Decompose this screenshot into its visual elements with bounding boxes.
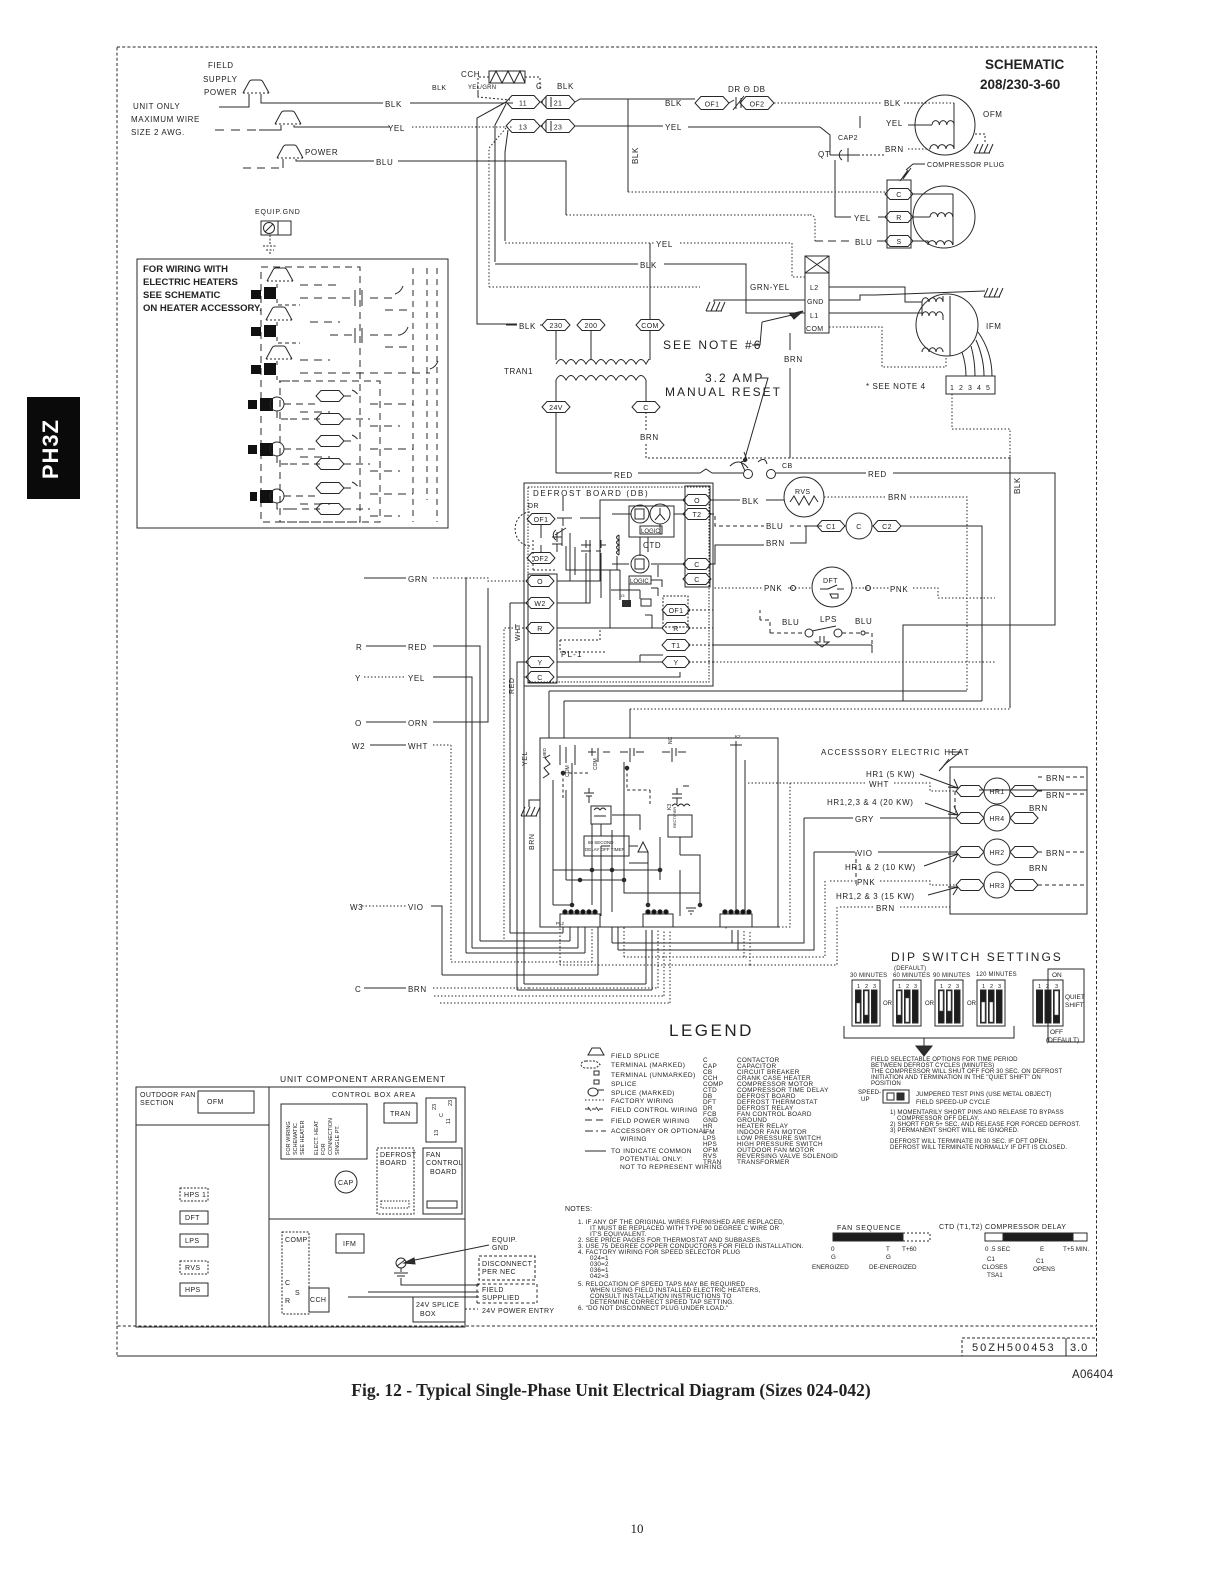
wire from cap down bbox=[834, 160, 836, 217]
svg-text:POSITION: POSITION bbox=[871, 1080, 901, 1087]
svg-text:DFT: DFT bbox=[823, 578, 838, 585]
HPS box bbox=[180, 1283, 208, 1296]
wire BRN from RVS bbox=[824, 496, 886, 498]
svg-text:S: S bbox=[896, 239, 901, 246]
contactor coil C1-C-C2 bbox=[817, 521, 845, 532]
terminal R bbox=[526, 623, 554, 634]
wire BRN dashed to connector bbox=[529, 930, 658, 988]
svg-text:R: R bbox=[896, 215, 901, 222]
rotated text box bbox=[281, 1104, 367, 1159]
svg-text:BOARD: BOARD bbox=[380, 1160, 407, 1167]
svg-text:G: G bbox=[886, 1254, 891, 1261]
svg-text:FIELD: FIELD bbox=[208, 61, 234, 70]
svg-text:RECTIFIER: RECTIFIER bbox=[672, 807, 677, 828]
svg-text:HR1,2,3 & 4 (20 KW): HR1,2,3 & 4 (20 KW) bbox=[827, 798, 914, 807]
DEFROST BOARD box bbox=[377, 1148, 414, 1214]
svg-text:DFT: DFT bbox=[185, 1215, 200, 1222]
curves from IFM to plug bbox=[962, 332, 992, 376]
svg-text:1: 1 bbox=[1038, 984, 1041, 990]
svg-text:R: R bbox=[356, 643, 362, 652]
terminal COM bbox=[636, 320, 664, 331]
svg-text:120 MINUTES: 120 MINUTES bbox=[976, 972, 1017, 978]
svg-text:WHT: WHT bbox=[515, 623, 522, 641]
svg-text:3.2 AMP: 3.2 AMP bbox=[705, 371, 764, 385]
svg-text:PNK: PNK bbox=[890, 585, 908, 594]
wires from T1/Y right bbox=[713, 645, 872, 653]
terminal C right1 bbox=[683, 559, 711, 570]
transistor 2 bbox=[631, 555, 649, 573]
svg-text:3.0: 3.0 bbox=[1070, 1342, 1088, 1354]
svg-text:ACCESSSORY ELECTRIC HEAT: ACCESSSORY ELECTRIC HEAT bbox=[821, 748, 970, 757]
svg-text:* SEE NOTE 4: * SEE NOTE 4 bbox=[866, 382, 926, 391]
terminal W2 bbox=[526, 598, 554, 609]
svg-text:UP: UP bbox=[861, 1096, 870, 1103]
svg-text:DEFROST WILL TERMINATE NORMALL: DEFROST WILL TERMINATE NORMALLY IF DFT I… bbox=[890, 1144, 1067, 1151]
DISCONNECT PER NEC box bbox=[479, 1256, 535, 1280]
splice sym bbox=[594, 1080, 599, 1084]
svg-text:200: 200 bbox=[585, 323, 598, 330]
board wire to O strip bbox=[533, 540, 557, 570]
svg-text:24V SPLICE: 24V SPLICE bbox=[416, 1302, 459, 1309]
svg-text:208/230-3-60: 208/230-3-60 bbox=[980, 77, 1060, 92]
svg-text:QT: QT bbox=[818, 150, 830, 159]
contact 11-21 bbox=[540, 96, 551, 108]
svg-text:CAP: CAP bbox=[338, 1180, 354, 1187]
wire yel dashed stub bbox=[215, 129, 259, 131]
svg-text:DEFROST: DEFROST bbox=[380, 1152, 417, 1159]
svg-text:Y: Y bbox=[673, 660, 678, 667]
cross runs joining left bundle bbox=[605, 926, 726, 928]
LPS box bbox=[180, 1234, 208, 1247]
svg-text:6. "DO NOT DISCONNECT PLUG UND: 6. "DO NOT DISCONNECT PLUG UNDER LOAD." bbox=[578, 1305, 729, 1312]
svg-text:BRN: BRN bbox=[1046, 791, 1065, 800]
svg-text:(DEFAULT): (DEFAULT) bbox=[1046, 1037, 1079, 1044]
svg-text:C1: C1 bbox=[987, 1256, 996, 1263]
GRN bbox=[364, 577, 406, 579]
vertical RED from R terminal bbox=[504, 628, 527, 941]
svg-text:23: 23 bbox=[432, 1104, 438, 1110]
svg-text:SUPPLIED: SUPPLIED bbox=[482, 1295, 520, 1302]
terminal Y right bbox=[662, 657, 690, 668]
FAN CONTROL BOARD box bbox=[423, 1148, 462, 1214]
LPS switch bbox=[770, 632, 804, 634]
wire BRN from cap2 to OFM bbox=[850, 154, 884, 156]
svg-text:OF1: OF1 bbox=[705, 102, 720, 109]
FCB lower wires bbox=[553, 870, 700, 905]
PH3Z black tab bbox=[27, 397, 80, 499]
svg-text:DE-ENERGIZED: DE-ENERGIZED bbox=[869, 1264, 917, 1271]
svg-text:ORN: ORN bbox=[408, 719, 428, 728]
HPS 1 box bbox=[180, 1188, 208, 1201]
terminal S bbox=[885, 236, 913, 247]
splice blobs 3 bbox=[251, 365, 261, 374]
svg-text:TRAN: TRAN bbox=[703, 1159, 722, 1166]
bracket + arrow bbox=[844, 1026, 1014, 1038]
svg-text:3) PERMANENT SHORT WILL BE IGN: 3) PERMANENT SHORT WILL BE IGNORED. bbox=[890, 1127, 1019, 1134]
svg-text:BLK: BLK bbox=[432, 85, 446, 92]
svg-text:BLK: BLK bbox=[519, 322, 536, 331]
arrow see note 6 bbox=[790, 311, 803, 319]
ground left of FCB bbox=[521, 807, 540, 816]
svg-text:1: 1 bbox=[950, 385, 954, 392]
svg-text:ELECTRIC HEATERS: ELECTRIC HEATERS bbox=[143, 277, 238, 288]
terminal block bbox=[805, 256, 829, 273]
compressor motor bbox=[913, 186, 975, 248]
field splice S1 bbox=[243, 80, 269, 93]
svg-text:OR: OR bbox=[967, 1001, 977, 1007]
heater terminal hex row3b bbox=[316, 504, 344, 515]
svg-text:MED: MED bbox=[542, 747, 547, 758]
divider vertical bbox=[268, 1087, 270, 1327]
splice arrows with blobs bbox=[251, 268, 300, 381]
svg-text:DEFROST BOARD (DB): DEFROST BOARD (DB) bbox=[533, 489, 649, 498]
svg-text:50ZH500453: 50ZH500453 bbox=[972, 1342, 1056, 1354]
board dashed runs bbox=[560, 628, 605, 652]
field power wiring sym bbox=[585, 1119, 606, 1121]
svg-text:2: 2 bbox=[959, 385, 963, 392]
svg-text:R: R bbox=[673, 626, 678, 633]
terminal OF1 lower right bbox=[663, 596, 688, 627]
svg-text:60 MINUTES: 60 MINUTES bbox=[893, 973, 930, 979]
svg-text:O: O bbox=[694, 498, 700, 505]
svg-text:SPEED-: SPEED- bbox=[858, 1089, 881, 1096]
dip block 3 bbox=[935, 980, 963, 1026]
svg-text:YEL: YEL bbox=[408, 674, 425, 683]
svg-text:NC: NC bbox=[668, 736, 674, 744]
svg-text:TERMINAL (UNMARKED): TERMINAL (UNMARKED) bbox=[611, 1072, 696, 1079]
terminal O bbox=[526, 576, 554, 587]
HR2 right wires bbox=[1038, 851, 1087, 853]
svg-text:YEL: YEL bbox=[886, 119, 903, 128]
svg-text:DELAY OFF TIMER: DELAY OFF TIMER bbox=[585, 847, 626, 852]
OFM box bbox=[198, 1091, 254, 1113]
svg-text:SHIFT: SHIFT bbox=[1065, 1002, 1084, 1009]
svg-text:BLK: BLK bbox=[631, 147, 640, 164]
part number box bbox=[962, 1338, 1097, 1356]
svg-text:RVS: RVS bbox=[795, 489, 810, 496]
wire RED right bbox=[712, 472, 866, 474]
wire BLK from O to RVS bbox=[710, 499, 740, 501]
svg-text:BOARD: BOARD bbox=[430, 1169, 457, 1176]
svg-text:YEL: YEL bbox=[854, 214, 871, 223]
terminal OF2 bbox=[527, 553, 555, 564]
svg-text:T+5 MIN.: T+5 MIN. bbox=[1063, 1246, 1089, 1253]
svg-text:CTD (T1,T2) COMPRESSOR DELAY: CTD (T1,T2) COMPRESSOR DELAY bbox=[939, 1224, 1066, 1231]
svg-text:C: C bbox=[694, 577, 699, 584]
small gnd inside bbox=[686, 908, 696, 914]
svg-text:EQUIP.: EQUIP. bbox=[492, 1237, 517, 1244]
FCB box bbox=[540, 738, 778, 927]
svg-text:BRN: BRN bbox=[766, 539, 785, 548]
svg-text:R: R bbox=[285, 1298, 290, 1305]
svg-text:K2: K2 bbox=[735, 734, 741, 739]
svg-text:COMP: COMP bbox=[285, 1237, 308, 1244]
svg-text:T2: T2 bbox=[693, 512, 702, 519]
svg-text:YEL: YEL bbox=[665, 123, 682, 132]
contact OF1-OF2 with slash bbox=[729, 96, 744, 110]
wire 24V down to RED bbox=[556, 412, 612, 473]
24V SPLICE BOX bbox=[413, 1297, 465, 1322]
svg-text:BRN: BRN bbox=[888, 493, 907, 502]
svg-text:13: 13 bbox=[519, 125, 528, 132]
svg-text:4: 4 bbox=[977, 385, 981, 392]
svg-text:MAXIMUM WIRE: MAXIMUM WIRE bbox=[131, 115, 200, 124]
svg-text:BLU: BLU bbox=[855, 238, 872, 247]
svg-text:FIELD CONTROL WIRING: FIELD CONTROL WIRING bbox=[611, 1107, 698, 1114]
terminal unmarked sym bbox=[594, 1071, 599, 1075]
wire row2 lower bbox=[277, 456, 320, 464]
svg-text:TRAN: TRAN bbox=[390, 1111, 411, 1118]
quiet shift block bbox=[1033, 969, 1085, 1044]
svg-text:11: 11 bbox=[519, 101, 527, 108]
svg-text:PL2: PL2 bbox=[556, 921, 565, 926]
primary winding bbox=[556, 359, 649, 364]
svg-text:E: E bbox=[1040, 1246, 1044, 1253]
svg-text:JUMPERED TEST PINS (USE METAL: JUMPERED TEST PINS (USE METAL OBJECT) bbox=[916, 1091, 1052, 1098]
wire blk stub bbox=[219, 94, 383, 107]
wire BLK dashed into C bbox=[628, 191, 886, 193]
terminal 24V bbox=[542, 402, 570, 413]
wire YEL from 23 bbox=[575, 125, 663, 127]
svg-text:RED: RED bbox=[614, 471, 633, 480]
junction at CB bbox=[743, 458, 746, 461]
svg-text:24V: 24V bbox=[549, 405, 563, 412]
terminal OF2 bbox=[740, 97, 774, 110]
svg-text:WHT: WHT bbox=[869, 780, 889, 789]
frame bottom solid line bbox=[117, 1326, 1097, 1356]
svg-text:UNIT ONLY: UNIT ONLY bbox=[133, 102, 180, 111]
info box bbox=[137, 259, 448, 528]
svg-text:YEL: YEL bbox=[388, 124, 405, 133]
wire BLK from 21 bbox=[575, 99, 695, 102]
svg-text:T1: T1 bbox=[672, 643, 681, 650]
svg-text:HR1: HR1 bbox=[989, 789, 1004, 796]
svg-text:CONNECTION: CONNECTION bbox=[328, 1118, 334, 1155]
svg-text:FOR: FOR bbox=[321, 1143, 327, 1155]
svg-text:CCH: CCH bbox=[310, 1297, 326, 1304]
svg-text:QUIET: QUIET bbox=[1065, 994, 1085, 1001]
svg-text:GND: GND bbox=[492, 1245, 509, 1252]
vertical feeds bbox=[556, 243, 650, 360]
terminal C right2 bbox=[683, 574, 711, 585]
svg-text:C: C bbox=[536, 82, 542, 91]
terminal R bbox=[885, 212, 913, 223]
wire BLU from T2 bbox=[710, 514, 764, 526]
svg-text:C2: C2 bbox=[882, 524, 892, 531]
svg-text:OFM: OFM bbox=[983, 110, 1003, 119]
svg-text:ON: ON bbox=[1052, 972, 1062, 979]
svg-text:HPS: HPS bbox=[185, 1287, 201, 1294]
svg-text:CONTROL BOX AREA: CONTROL BOX AREA bbox=[332, 1092, 416, 1099]
svg-text:G: G bbox=[831, 1254, 836, 1261]
svg-text:FOR WIRING WITH: FOR WIRING WITH bbox=[143, 264, 228, 275]
svg-text:Fig. 12 - Typical Single-Phase: Fig. 12 - Typical Single-Phase Unit Elec… bbox=[351, 1380, 871, 1400]
svg-text:DR: DR bbox=[528, 503, 539, 510]
svg-text:HPS 1: HPS 1 bbox=[184, 1192, 206, 1199]
svg-text:L1: L1 bbox=[810, 313, 819, 320]
wire PNK to DFT bbox=[710, 579, 763, 588]
svg-text:DISCONNECT: DISCONNECT bbox=[482, 1261, 533, 1268]
svg-text:SCHEMATIC: SCHEMATIC bbox=[293, 1123, 299, 1155]
terminal OF1 bbox=[695, 97, 729, 110]
svg-text:OF2: OF2 bbox=[750, 102, 765, 109]
svg-text:FACTORY WIRING: FACTORY WIRING bbox=[611, 1098, 674, 1105]
COMP box bbox=[282, 1232, 309, 1314]
svg-text:BLU: BLU bbox=[376, 158, 393, 167]
IFM motor bbox=[916, 294, 978, 356]
DFT thermostat bbox=[812, 567, 852, 607]
svg-text:BRN: BRN bbox=[408, 985, 427, 994]
svg-text:OR: OR bbox=[883, 1001, 893, 1007]
coil inductor bbox=[617, 535, 620, 555]
svg-text:R: R bbox=[537, 626, 542, 633]
vertical BLK riser bbox=[627, 99, 629, 192]
terminal 13 bbox=[506, 120, 540, 133]
svg-text:SPLICE (MARKED): SPLICE (MARKED) bbox=[611, 1090, 675, 1097]
compressor plug box bbox=[887, 180, 911, 248]
svg-text:OUTDOOR FAN: OUTDOOR FAN bbox=[140, 1092, 196, 1099]
splice dot LPS right bbox=[861, 631, 865, 635]
terminal C bbox=[885, 189, 913, 200]
wire from C2 bbox=[901, 526, 982, 701]
heater terminal hex row3a bbox=[316, 483, 344, 494]
svg-text:1: 1 bbox=[898, 984, 901, 990]
svg-text:FIELD: FIELD bbox=[482, 1287, 504, 1294]
svg-text:W2: W2 bbox=[534, 601, 545, 608]
svg-text:BLU: BLU bbox=[766, 522, 783, 531]
svg-text:C: C bbox=[439, 1113, 445, 1117]
svg-text:HR1 (5 KW): HR1 (5 KW) bbox=[866, 770, 915, 779]
svg-text:BRN: BRN bbox=[529, 833, 536, 850]
wire BRN from C right1 bbox=[710, 545, 764, 564]
board interior wires bbox=[601, 815, 700, 870]
svg-text:TO INDICATE COMMON: TO INDICATE COMMON bbox=[611, 1148, 692, 1155]
svg-text:3: 3 bbox=[873, 984, 876, 990]
svg-text:BRN: BRN bbox=[1029, 864, 1048, 873]
svg-text:BLK: BLK bbox=[557, 82, 574, 91]
svg-text:SEE SCHEMATIC: SEE SCHEMATIC bbox=[143, 290, 221, 301]
terminal T2 bbox=[683, 509, 711, 520]
wire YEL run to connector bbox=[517, 930, 652, 990]
svg-text:TSA1: TSA1 bbox=[987, 1272, 1003, 1279]
svg-text:COMPRESSOR PLUG: COMPRESSOR PLUG bbox=[927, 162, 1005, 169]
small parts bbox=[622, 600, 631, 607]
board outline bbox=[524, 483, 713, 686]
wire from LPS to T1 run bbox=[865, 633, 872, 645]
terminal T1 bbox=[662, 640, 690, 651]
vertical BLK right bbox=[1009, 457, 1011, 708]
svg-text:W3: W3 bbox=[350, 903, 363, 912]
svg-text:SEE NOTE #6: SEE NOTE #6 bbox=[663, 338, 762, 352]
svg-text:BRN: BRN bbox=[784, 355, 803, 364]
svg-text:T: T bbox=[886, 1246, 890, 1253]
svg-text:LEGEND: LEGEND bbox=[669, 1021, 754, 1040]
equip gnd ground symbol bbox=[263, 235, 277, 253]
svg-text:PH3Z: PH3Z bbox=[38, 419, 63, 479]
HR2 row bbox=[956, 847, 984, 858]
svg-text:CTD: CTD bbox=[643, 541, 661, 550]
svg-text:A06404: A06404 bbox=[1072, 1369, 1114, 1381]
field control wiring sym bbox=[585, 1108, 606, 1110]
svg-text:ENERGIZED: ENERGIZED bbox=[812, 1264, 849, 1271]
RED return loop bbox=[902, 625, 904, 701]
svg-text:TRAN1: TRAN1 bbox=[504, 367, 533, 376]
relay contact K2 bbox=[730, 741, 742, 749]
thermostat wires turning right bbox=[480, 927, 570, 941]
svg-text:BOX: BOX bbox=[420, 1311, 436, 1318]
junction dots FCB top bbox=[561, 771, 565, 775]
terminal Y bbox=[526, 657, 554, 668]
dip block 2 bbox=[893, 980, 921, 1026]
IFM box bbox=[336, 1234, 364, 1253]
svg-text:5: 5 bbox=[986, 385, 990, 392]
triangle bbox=[638, 842, 648, 852]
svg-text:IFM: IFM bbox=[986, 322, 1002, 331]
svg-text:OPENS: OPENS bbox=[1033, 1266, 1055, 1273]
svg-text:BLK: BLK bbox=[884, 99, 901, 108]
DFT box bbox=[180, 1211, 208, 1224]
svg-text:RVS: RVS bbox=[185, 1265, 200, 1272]
svg-text:13: 13 bbox=[620, 593, 625, 598]
svg-text:LOGIC: LOGIC bbox=[630, 579, 649, 585]
dip block 4 bbox=[977, 980, 1005, 1026]
capacitor mid-left bbox=[584, 788, 594, 803]
dashed rungs upper bbox=[300, 298, 430, 373]
svg-text:LOGIC: LOGIC bbox=[641, 529, 660, 535]
svg-text:23: 23 bbox=[554, 125, 563, 132]
svg-text:3: 3 bbox=[968, 385, 972, 392]
svg-text:POWER: POWER bbox=[204, 88, 237, 97]
wire C BRN dashed bbox=[433, 987, 529, 989]
svg-text:O: O bbox=[537, 579, 543, 586]
svg-text:COM: COM bbox=[593, 758, 599, 770]
svg-text:PNK: PNK bbox=[857, 878, 875, 887]
equip gnd screw bbox=[396, 1258, 406, 1268]
svg-text:BRN: BRN bbox=[1046, 849, 1065, 858]
svg-text:CCH: CCH bbox=[461, 70, 480, 79]
terminal OF1 bbox=[527, 514, 555, 525]
svg-text:SINGLE PT.: SINGLE PT. bbox=[335, 1125, 341, 1155]
svg-text:SPLICE: SPLICE bbox=[611, 1081, 637, 1088]
svg-text:FIELD SPEED-UP CYCLE: FIELD SPEED-UP CYCLE bbox=[916, 1099, 990, 1106]
connector mid bbox=[643, 910, 673, 927]
svg-text:BLK: BLK bbox=[1013, 477, 1022, 494]
svg-text:21: 21 bbox=[554, 101, 563, 108]
bundle horizontal runs bbox=[549, 691, 982, 701]
svg-text:RED: RED bbox=[868, 470, 887, 479]
wire row2 bbox=[284, 448, 320, 450]
RVS solenoid bbox=[784, 477, 824, 517]
K1 coil bbox=[591, 806, 611, 824]
dashed cch wiring bbox=[478, 77, 540, 97]
svg-text:1: 1 bbox=[857, 984, 860, 990]
fan bar bbox=[833, 1233, 903, 1241]
svg-text:LPS: LPS bbox=[185, 1238, 199, 1245]
terminal C lower bbox=[526, 672, 554, 683]
svg-text:ON HEATER ACCESSORY.: ON HEATER ACCESSORY. bbox=[143, 303, 262, 314]
wire dashed run 1003 bbox=[440, 930, 670, 1003]
svg-text:T+60: T+60 bbox=[902, 1246, 917, 1253]
board wires lower right bbox=[640, 615, 663, 662]
svg-text:0 .5 SEC: 0 .5 SEC bbox=[985, 1246, 1011, 1253]
60 second delay off timer box bbox=[584, 836, 629, 856]
terminal marked sym bbox=[581, 1061, 600, 1068]
svg-text:10: 10 bbox=[631, 1521, 644, 1536]
svg-text:COM: COM bbox=[565, 765, 571, 777]
svg-text:FOR WIRING: FOR WIRING bbox=[286, 1121, 292, 1155]
wire blu stub bbox=[243, 167, 283, 169]
svg-text:DIP SWITCH SETTINGS: DIP SWITCH SETTINGS bbox=[891, 950, 1063, 964]
